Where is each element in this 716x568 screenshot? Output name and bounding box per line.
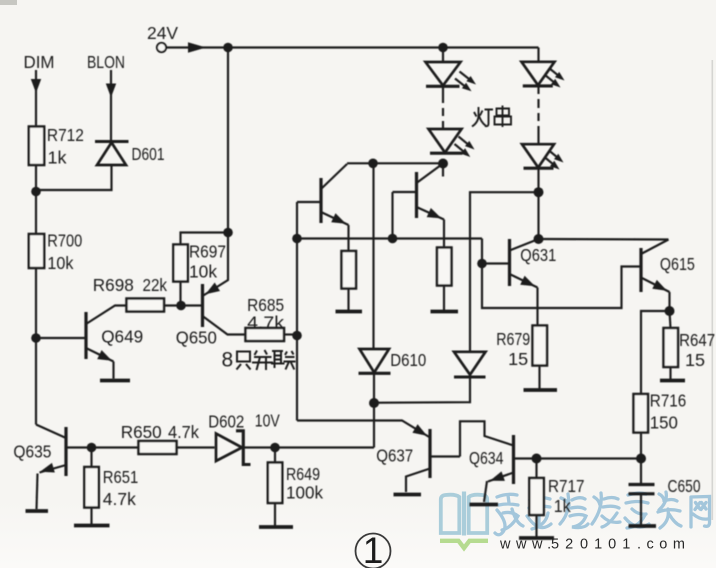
transistor Q637 (PNP) [297, 421, 460, 493]
label 灯串 (LED string) [472, 106, 511, 128]
wire riser from 24V rail down to R697/Q650 [227, 48, 229, 233]
ground R649 [259, 525, 293, 529]
svg-text:15: 15 [685, 350, 705, 370]
resistor R650 (horizontal) [139, 441, 177, 454]
junction dot Q635 base / R651 [87, 443, 97, 453]
wire D610 branch vertical [372, 163, 374, 349]
wire emitter node to R716 [641, 311, 670, 394]
junction dot Q649 base tap [31, 333, 41, 343]
svg-text:R647: R647 [679, 330, 715, 350]
wire dashed LED string right [537, 86, 539, 144]
wire top 24V rail [228, 46, 539, 48]
wire node A to R700 [35, 192, 37, 235]
LED D-A2 [429, 129, 475, 157]
watermark url www.520101.com [499, 537, 690, 553]
svg-text:4.7k: 4.7k [103, 489, 136, 509]
wire R685 to vertical bus [284, 333, 297, 335]
junction dot R649 tap [270, 443, 280, 453]
LED D-A1 [426, 48, 477, 104]
label 8只并联 (8 in parallel) [222, 349, 296, 372]
svg-text:D601: D601 [132, 144, 165, 164]
ground C650 [629, 524, 657, 528]
capacitor C650 [629, 459, 655, 525]
svg-text:Q649: Q649 [101, 327, 143, 347]
wire base bus vertical left (R685 node to Q637 emitter line) [296, 202, 298, 421]
wire collector node to Q615 collector [539, 238, 669, 241]
transistor Q631 [482, 239, 539, 326]
ground R679 [524, 388, 558, 392]
watermark characters 家电维修资料网 (approximated strokes) [495, 492, 710, 535]
svg-text:Q650: Q650 [176, 328, 217, 348]
resistor R685 (horizontal) [246, 328, 285, 341]
24V input terminal [157, 43, 166, 52]
svg-text:0101: 0101 [580, 537, 636, 553]
junction dot zener node [369, 398, 379, 408]
junction dot Q631 collector node [534, 234, 544, 244]
wire 24V terminal to rail with direction arrow [167, 42, 229, 53]
resistor RE1 (unlabeled emitter resistor) [342, 251, 357, 289]
svg-text:.com: .com [637, 537, 690, 553]
rail corner to right LED string [537, 48, 539, 62]
junction dot riser/R697/Q650 emitter [223, 228, 233, 238]
svg-text:Q634: Q634 [469, 448, 504, 468]
resistor R697 [173, 245, 188, 282]
scan artifact top-left corner [0, 0, 17, 5]
watermark book icon [441, 492, 487, 536]
junction dot bus left corner [292, 234, 302, 244]
svg-text:D610: D610 [390, 350, 426, 370]
diode D601 (cathode up) [36, 142, 129, 191]
transistor Q634 (facing left) [484, 435, 537, 502]
wire R647 to ground [669, 367, 671, 379]
wire BLON input with arrow [106, 70, 116, 141]
svg-text:R717: R717 [548, 476, 585, 496]
svg-text:Q631: Q631 [520, 245, 556, 265]
wire bus right segment down/right/up to Q615 base [482, 239, 641, 309]
svg-text:24V: 24V [147, 23, 178, 43]
resistor R649 [268, 463, 283, 504]
zener D610 [359, 349, 391, 403]
wire zener node to D602 line [373, 403, 375, 448]
svg-text:R700: R700 [47, 231, 82, 251]
wire R649 to ground [274, 503, 276, 526]
svg-text:10k: 10k [47, 253, 73, 273]
svg-text:R697: R697 [189, 242, 226, 262]
transistor Q615 [641, 240, 670, 312]
ground Q637 collector [394, 493, 422, 497]
wire dot to R649 [274, 448, 276, 463]
svg-text:R649: R649 [286, 464, 320, 484]
transistor Q2 (parallel driver, unlabeled) [393, 164, 445, 248]
svg-text:15: 15 [508, 349, 528, 369]
resistor RE2 (unlabeled emitter resistor) [437, 248, 452, 286]
resistor R700 [29, 234, 44, 268]
resistor R651 [84, 467, 99, 508]
svg-text:22k: 22k [143, 275, 168, 295]
junction dot transistor B base tap [388, 234, 398, 244]
resistor R679 [533, 326, 548, 366]
junction dot right LED string bottom [534, 187, 544, 197]
svg-text:Q615: Q615 [660, 254, 695, 274]
wire R651 to ground [90, 508, 92, 525]
ground RE1 [336, 310, 363, 314]
LED D-B2 [522, 144, 564, 169]
svg-text:1k: 1k [554, 496, 571, 516]
wire R717 to ground [535, 515, 537, 537]
junction dot R717 tap [532, 454, 542, 464]
svg-text:R716: R716 [650, 391, 687, 411]
junction dot Q615 emitter node [665, 306, 675, 316]
svg-text:1: 1 [363, 530, 384, 568]
transistor Q635 (facing left) [36, 425, 92, 510]
transistor Q649 [36, 306, 127, 379]
svg-text:C650: C650 [668, 476, 701, 496]
wire R650 to D602 [177, 446, 215, 448]
resistor R716 [634, 394, 649, 433]
wire base bus horizontal [297, 237, 482, 239]
svg-text:D602: D602 [208, 412, 244, 432]
wire dot to R717 [535, 459, 537, 479]
wire R716 to output node [640, 433, 642, 459]
wire RE2 to ground [443, 286, 445, 311]
junction dot R697/R698/Q650 base [176, 301, 186, 311]
ground R717 [519, 536, 554, 540]
svg-text:100k: 100k [286, 483, 323, 503]
svg-text:150: 150 [650, 413, 678, 433]
ground R647 [660, 379, 685, 383]
svg-text:R698: R698 [93, 275, 134, 295]
svg-text:R679: R679 [496, 329, 530, 349]
wire R679 to ground [538, 366, 540, 389]
ground RE2 [431, 310, 459, 314]
wire dashed LED string left [442, 108, 444, 129]
wire Q634 base to output node [537, 457, 642, 459]
wire D602 to R649 node and on to zener node riser [244, 446, 375, 448]
resistor R717 [529, 478, 544, 515]
wire DIM input with arrow [31, 70, 41, 127]
watermark book underline swoosh [440, 541, 488, 548]
ground R651 [74, 524, 110, 528]
svg-text:4.7k: 4.7k [247, 313, 284, 333]
svg-text:R651: R651 [103, 467, 139, 487]
junction dot Q631 base tap [477, 259, 487, 269]
junction dot D610 top [368, 159, 378, 169]
svg-text:BLON: BLON [87, 52, 125, 72]
wire dot to R651 [90, 448, 92, 468]
svg-text:52: 52 [551, 537, 579, 553]
junction dot LED string left top [438, 43, 448, 53]
svg-text:DIM: DIM [24, 52, 55, 72]
wire emitter node to R647 [670, 311, 671, 328]
junction dot R685/vertical [292, 331, 302, 341]
junction dot R712/D601 [31, 187, 41, 197]
resistor R712 [29, 127, 44, 166]
svg-text:1k: 1k [48, 148, 67, 168]
svg-text:4.7k: 4.7k [168, 422, 199, 442]
svg-text:10V: 10V [255, 411, 280, 431]
ground Q649 emitter [100, 379, 130, 383]
ground Q635 emitter [26, 509, 49, 513]
svg-text:R650: R650 [121, 422, 162, 442]
svg-text:Q635: Q635 [13, 442, 51, 462]
wire zener node to second zener [374, 377, 470, 403]
LED D-B1 [522, 62, 565, 88]
resistor R647 [664, 328, 679, 367]
zener D2 (unlabeled) [454, 352, 486, 377]
wire R651 node to R650 [92, 446, 139, 448]
svg-text:8: 8 [222, 349, 234, 372]
resistor R698 (horizontal) [127, 299, 165, 312]
ground Q634 emitter [470, 503, 499, 507]
svg-text:R712: R712 [47, 125, 84, 145]
figure number circled 1 [356, 530, 391, 568]
wire R698 to Q650 base [164, 304, 203, 306]
wire R700 down left rail to Q635 [35, 268, 37, 425]
scan artifact right edge line [712, 60, 714, 520]
diode D602 [216, 431, 251, 465]
junction dot R716/C650 output node [636, 454, 646, 464]
wire Q637 base to Q634 collector [460, 421, 514, 456]
junction dot LED string left bottom [438, 159, 448, 169]
transistor Q650 (PNP) [203, 233, 246, 335]
svg-text:10k: 10k [189, 262, 217, 282]
wire R697 bottom to base node [179, 282, 181, 306]
transistor Q1 (parallel driver, unlabeled) [297, 164, 349, 251]
wire R712 to node A [35, 165, 37, 192]
junction dot 24V rail / riser [223, 43, 233, 53]
wire LED string bottom left [347, 162, 443, 164]
wire RE1 to ground [347, 289, 349, 311]
wire R697 top to 24V riser [181, 233, 229, 245]
svg-text:Q637: Q637 [376, 446, 413, 466]
wire right string bottom to second zener branch [470, 168, 539, 352]
